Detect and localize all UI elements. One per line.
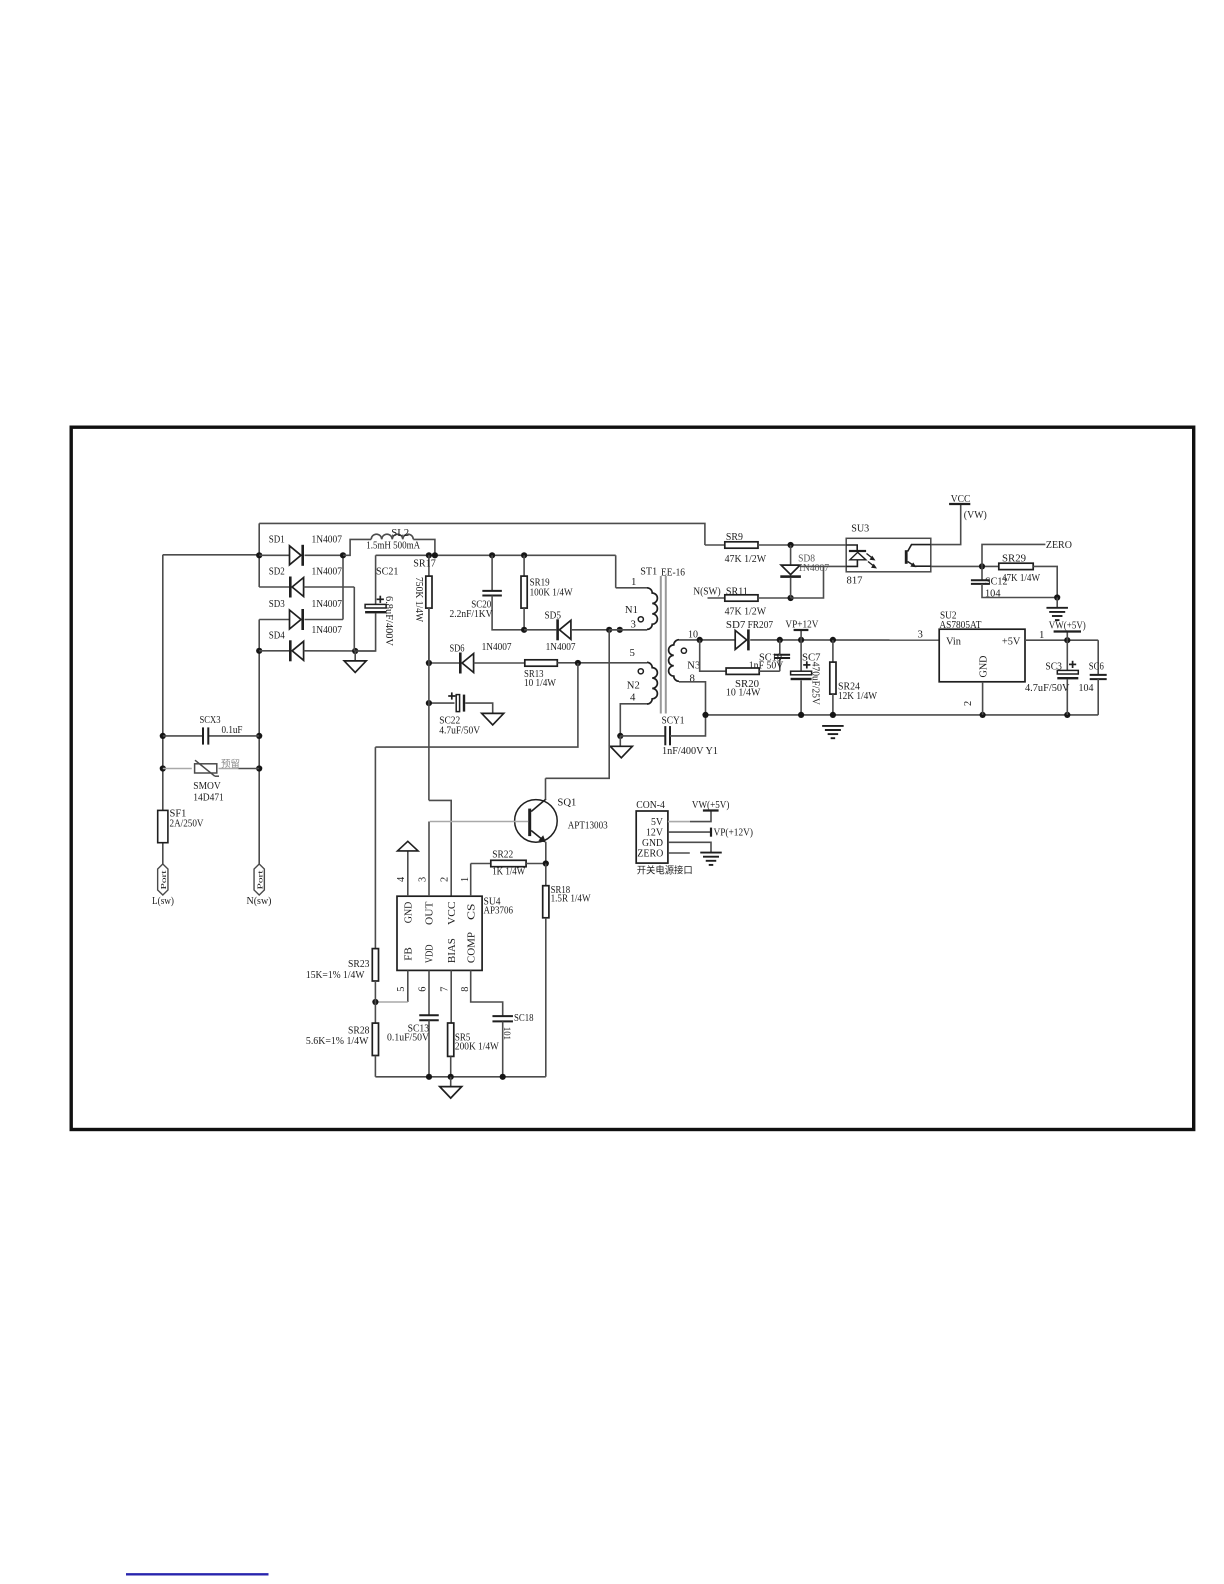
wire secondary ground bus — [702, 712, 1098, 718]
wire N input net (port up through bridge to top bus) — [256, 523, 262, 864]
diode SD3 — [259, 609, 343, 630]
label SD6 — [450, 641, 513, 654]
svg-text:N1: N1 — [625, 604, 638, 616]
svg-text:1N4007: 1N4007 — [798, 563, 829, 574]
svg-text:SR29: SR29 — [1002, 554, 1026, 565]
fuse SF1 — [158, 810, 168, 842]
capacitor SC7 — [791, 640, 812, 715]
wire opto emitter node — [931, 563, 999, 569]
svg-text:4: 4 — [630, 692, 636, 704]
svg-text:0.1uF/50V: 0.1uF/50V — [387, 1033, 429, 1044]
svg-text:750K 1/4W: 750K 1/4W — [413, 577, 424, 622]
label SR20 — [726, 678, 761, 699]
wire CON-4 GND pin — [668, 842, 711, 852]
power flag VW(+5V) at CON-4 — [703, 809, 719, 811]
IC SU4 AP3706 — [397, 896, 482, 970]
resistor SR23 (FB divider upper) — [372, 747, 378, 1002]
svg-text:FB: FB — [403, 947, 414, 961]
capacitor SC21 (bulk) — [355, 555, 386, 651]
label SL2 — [366, 527, 420, 552]
svg-text:3: 3 — [918, 628, 923, 640]
transistor Q1 SQ1 APT13003 — [430, 778, 557, 863]
svg-text:6: 6 — [418, 987, 429, 992]
capacitor SC19 (snubber) — [774, 640, 790, 671]
label SD7 — [726, 619, 774, 631]
label SC13 — [387, 1023, 429, 1043]
label SD4 — [269, 624, 343, 642]
power flag VW(+5V) — [1054, 632, 1081, 641]
svg-text:12K 1/4W: 12K 1/4W — [838, 690, 878, 702]
label SC3 — [1025, 661, 1070, 694]
svg-text:47K 1/2W: 47K 1/2W — [725, 607, 767, 618]
wire SU2 +5V output — [1025, 629, 1098, 643]
wire N3 pin8 to ground — [679, 682, 706, 715]
wire pin5 FB — [372, 970, 408, 1005]
svg-text:+5V: +5V — [1002, 636, 1021, 648]
svg-text:104: 104 — [985, 588, 1001, 599]
svg-text:4.7uF/50V: 4.7uF/50V — [439, 724, 480, 736]
svg-text:AS7805AT: AS7805AT — [939, 619, 981, 631]
svg-text:12V: 12V — [646, 827, 663, 838]
svg-text:L(sw): L(sw) — [152, 895, 174, 907]
wire aux feedback tap — [375, 663, 578, 747]
svg-text:1: 1 — [631, 576, 636, 588]
wire N2 pin4 to ground — [617, 704, 647, 739]
label ZERO — [1046, 539, 1072, 551]
svg-text:OUT: OUT — [425, 901, 436, 925]
svg-text:7: 7 — [439, 987, 450, 992]
svg-text:SD3: SD3 — [269, 598, 285, 610]
power flag VP+12V — [794, 630, 809, 640]
svg-text:1.5mH 500mA: 1.5mH 500mA — [366, 539, 420, 551]
svg-text:2: 2 — [963, 701, 974, 706]
power flag VCC — [949, 503, 970, 505]
wire primary winding pin1 feed — [615, 555, 617, 588]
svg-text:AP3706: AP3706 — [484, 905, 514, 917]
port N(sw) — [254, 864, 264, 895]
svg-text:104: 104 — [1079, 682, 1095, 694]
svg-text:4: 4 — [396, 877, 407, 882]
svg-text:APT13003: APT13003 — [568, 819, 608, 831]
svg-text:VP+12V: VP+12V — [785, 618, 818, 630]
label SQ1 — [557, 796, 607, 831]
svg-text:1.5R 1/4W: 1.5R 1/4W — [551, 892, 592, 904]
svg-text:6.8uF/400V: 6.8uF/400V — [383, 596, 394, 647]
svg-text:SD7: SD7 — [726, 619, 746, 631]
wire DC+ bus — [376, 552, 616, 558]
svg-text:GND: GND — [978, 655, 990, 677]
svg-text:VDD: VDD — [425, 944, 436, 963]
label SR29 — [1002, 554, 1040, 584]
label SD3 — [269, 598, 343, 610]
ground (N2 return) — [610, 736, 632, 758]
label SU2 — [939, 610, 981, 631]
label SU3 — [847, 523, 870, 587]
label SC21 — [376, 566, 399, 647]
label SC19 — [749, 652, 784, 672]
svg-text:200K 1/4W: 200K 1/4W — [455, 1041, 499, 1052]
wire pin1 CS — [470, 864, 472, 897]
capacitor SC20 (snubber) — [482, 555, 524, 630]
svg-text:10 1/4W: 10 1/4W — [524, 677, 557, 689]
svg-text:VW(+5V): VW(+5V) — [692, 799, 730, 811]
svg-text:SC12: SC12 — [985, 577, 1008, 588]
svg-text:ST1: ST1 — [640, 565, 657, 577]
label SD8 — [798, 553, 829, 574]
svg-text:SR11: SR11 — [726, 586, 748, 597]
wire CON-4 ZERO pin — [668, 852, 690, 854]
label SR18 — [551, 884, 592, 905]
label N2 pins — [627, 647, 640, 704]
svg-text:Port: Port — [160, 870, 168, 889]
svg-text:2A/250V: 2A/250V — [170, 818, 204, 829]
svg-text:SR23: SR23 — [348, 959, 370, 970]
svg-text:100K 1/4W: 100K 1/4W — [530, 586, 574, 598]
resistor SR18 (current sense) — [543, 864, 549, 1077]
resistor SR11 — [708, 595, 794, 601]
label SU4 — [484, 895, 514, 916]
svg-text:47K 1/2W: 47K 1/2W — [725, 554, 767, 565]
svg-text:8: 8 — [460, 987, 471, 992]
capacitor SC18 (COMP pin8) — [471, 970, 513, 1076]
label SC20 — [450, 599, 493, 621]
svg-text:SR17: SR17 — [413, 557, 436, 569]
svg-text:SC21: SC21 — [376, 566, 399, 578]
svg-text:Port: Port — [256, 870, 264, 889]
svg-text:10 1/4W: 10 1/4W — [726, 687, 761, 699]
resistor SR5 (BIAS pin7) — [448, 970, 454, 1076]
svg-text:14D471: 14D471 — [193, 793, 224, 804]
wire primary switch node — [546, 630, 610, 779]
label SR22 — [492, 848, 526, 877]
label SCX3 — [200, 715, 243, 736]
ground (CON-4) — [700, 853, 722, 865]
svg-text:1N4007: 1N4007 — [312, 533, 343, 545]
connector CON-4 — [636, 811, 668, 863]
ground (zero net filter) — [1046, 598, 1068, 621]
regulator SU2 AS7805AT — [939, 629, 1025, 682]
label N3 pins — [687, 629, 700, 685]
svg-text:VW(+5V): VW(+5V) — [1049, 620, 1086, 632]
svg-text:5: 5 — [396, 987, 407, 992]
label L(sw) — [152, 895, 174, 907]
svg-text:101: 101 — [502, 1027, 512, 1040]
ground (secondary bus) — [822, 726, 844, 738]
resistor SR9 — [705, 542, 846, 548]
svg-text:ZERO: ZERO — [1046, 539, 1072, 551]
svg-text:(VW): (VW) — [964, 509, 987, 521]
svg-text:1nF 50V: 1nF 50V — [749, 660, 784, 672]
label ST1 — [640, 565, 685, 578]
svg-text:SC6: SC6 — [1089, 661, 1104, 673]
svg-text:SCY1: SCY1 — [662, 715, 685, 727]
label SR13 — [524, 668, 557, 689]
svg-text:N3: N3 — [687, 659, 700, 671]
svg-text:0.1uF: 0.1uF — [222, 725, 243, 736]
capacitor SC12 — [971, 566, 1060, 600]
svg-text:3: 3 — [418, 877, 429, 882]
svg-text:1: 1 — [1039, 629, 1044, 641]
svg-text:SR28: SR28 — [348, 1025, 370, 1036]
label SR17 — [413, 557, 436, 622]
resistor SR19 (snubber) — [521, 555, 527, 633]
resistor SR29 — [999, 563, 1057, 597]
wire bridge DC+ join (SD1-SD3 cathodes) — [340, 552, 346, 619]
svg-text:4.7uF/50V: 4.7uF/50V — [1025, 682, 1070, 694]
svg-text:Vin: Vin — [946, 635, 962, 647]
wire top bus (N to SR9) — [259, 523, 705, 545]
wire CON-4 5V pin — [668, 811, 711, 822]
svg-text:SC3: SC3 — [1045, 661, 1062, 673]
svg-text:SCX3: SCX3 — [200, 715, 221, 726]
label VCC — [951, 493, 987, 521]
svg-text:2: 2 — [439, 877, 450, 882]
svg-text:N2: N2 — [627, 680, 640, 692]
capacitor SC3 — [1057, 640, 1078, 715]
label SD5 — [545, 609, 577, 653]
svg-text:FR207: FR207 — [748, 619, 774, 631]
capacitor SC22 (VCC filter) — [426, 692, 493, 713]
svg-text:COMP: COMP — [466, 932, 477, 963]
diode SD6 — [426, 653, 525, 674]
resistor SR13 — [525, 660, 647, 666]
optocoupler SU3 817 — [846, 538, 931, 572]
svg-text:1N4007: 1N4007 — [482, 641, 513, 653]
transformer aux winding N2 — [647, 662, 657, 704]
capacitor SCY1 (Y-cap) — [620, 715, 705, 745]
svg-text:ZERO: ZERO — [637, 848, 663, 859]
svg-text:GND: GND — [403, 901, 414, 923]
label SF1 — [170, 808, 204, 829]
varistor SMOV — [163, 760, 259, 776]
label VW(+5V) at CON-4 — [692, 799, 730, 811]
svg-text:8: 8 — [690, 673, 695, 685]
diode SD8 — [780, 545, 801, 598]
resistor SR22 (CS sense feed) — [471, 860, 549, 866]
label SR5 — [455, 1033, 499, 1053]
svg-text:SC18: SC18 — [514, 1013, 534, 1024]
diode SD5 (clamp) — [524, 619, 647, 640]
label SU4 bottom pin numbers — [396, 987, 471, 992]
label SD1 — [269, 533, 343, 545]
resistor SR17 (startup) — [426, 555, 432, 663]
label VP(+12V) — [714, 826, 754, 838]
label VP+12V — [785, 618, 818, 630]
phase dot N3 — [681, 648, 686, 653]
wire CON-4 12V pin — [668, 831, 711, 833]
svg-text:SMOV: SMOV — [193, 781, 221, 792]
port L(sw) — [158, 864, 168, 895]
svg-text:3: 3 — [631, 618, 636, 630]
label SC6 — [1079, 661, 1105, 694]
wire L input net (from fuse up to bridge) — [160, 555, 260, 864]
wire SU2 GND pin2 — [963, 682, 983, 715]
label SU4 top pin numbers — [396, 877, 471, 882]
label SU2 pin3 — [918, 628, 923, 640]
phase dot N1 — [638, 617, 643, 622]
label SC18 — [502, 1013, 534, 1040]
diode SD4 — [259, 640, 375, 661]
ground (bridge negative) — [344, 651, 366, 672]
svg-text:1N4007: 1N4007 — [312, 566, 343, 578]
wire VCC rail down to controller — [429, 608, 451, 896]
svg-text:开关电源接口: 开关电源接口 — [637, 865, 693, 877]
svg-text:VCC: VCC — [447, 901, 458, 925]
label CON-4 — [636, 799, 665, 811]
label SR23 — [306, 959, 370, 981]
svg-text:SD4: SD4 — [269, 630, 285, 642]
wire controller ground bus — [375, 1074, 545, 1080]
wire net ZERO stub — [982, 544, 1045, 566]
label SR19 — [530, 577, 574, 599]
label N(SW) — [693, 586, 721, 597]
label SC7 — [802, 652, 821, 706]
label N(sw) — [247, 895, 272, 907]
label SC12 — [985, 577, 1008, 600]
svg-text:470uF/25V: 470uF/25V — [809, 662, 820, 706]
svg-text:47K 1/4W: 47K 1/4W — [1002, 573, 1040, 584]
wire opto LED cathode return — [791, 566, 847, 598]
label SC22 — [439, 715, 480, 737]
label N1 pins — [625, 576, 638, 630]
svg-text:817: 817 — [847, 575, 864, 587]
transformer ST1 core — [661, 576, 666, 714]
capacitor SCX3 (X-cap across L-N) — [163, 727, 259, 744]
svg-text:SR22: SR22 — [492, 848, 513, 860]
wire opto collector to VCC — [931, 504, 961, 545]
svg-text:5.6K=1% 1/4W: 5.6K=1% 1/4W — [306, 1036, 369, 1047]
wire N3 pin10 — [679, 637, 735, 643]
label connector Chinese — [637, 865, 693, 877]
label SMOV — [193, 781, 224, 804]
label SR11 — [725, 586, 767, 617]
svg-text:1N4007: 1N4007 — [546, 641, 577, 653]
resistor SR28 (FB divider lower) — [372, 1002, 378, 1077]
svg-text:CON-4: CON-4 — [636, 799, 665, 811]
svg-text:1N4007: 1N4007 — [312, 598, 343, 610]
wire bridge DC- join (SD2-SD4 anodes) — [353, 587, 355, 651]
svg-text:VCC: VCC — [951, 493, 971, 505]
label VW(+5V) — [1049, 620, 1086, 632]
label SR28 — [306, 1025, 370, 1047]
label SD2 — [269, 566, 343, 578]
transformer primary winding N1 — [609, 588, 657, 630]
svg-text:SU3: SU3 — [851, 523, 869, 535]
svg-text:1K 1/4W: 1K 1/4W — [492, 866, 526, 878]
svg-text:SD5: SD5 — [545, 609, 562, 621]
svg-text:SD1: SD1 — [269, 533, 285, 545]
svg-text:5: 5 — [630, 647, 635, 659]
diode SD7 — [735, 629, 939, 650]
resistor SR24 — [830, 640, 836, 715]
svg-text:N(sw): N(sw) — [247, 895, 272, 907]
svg-text:N(SW): N(SW) — [693, 586, 721, 597]
svg-text:10: 10 — [688, 629, 698, 641]
svg-text:2.2nF/1KV: 2.2nF/1KV — [450, 608, 493, 620]
svg-text:SD6: SD6 — [450, 643, 465, 655]
svg-text:预留: 预留 — [221, 757, 240, 770]
svg-text:1: 1 — [460, 877, 471, 882]
label SR9 — [725, 532, 767, 565]
svg-text:CS: CS — [466, 903, 477, 920]
resistor SR20 (snubber) — [700, 640, 780, 675]
diode SD2 — [259, 577, 354, 598]
inductor SL2 — [343, 534, 435, 555]
capacitor SC13 (VDD pin6) — [419, 970, 439, 1076]
capacitor SC6 — [1090, 640, 1107, 715]
label SCY1 — [662, 715, 719, 758]
power flag VP(+12V) at CON-4 — [710, 828, 712, 837]
svg-text:EE-16: EE-16 — [661, 567, 686, 579]
wire pin3 OUT to base — [428, 822, 430, 897]
svg-text:GND: GND — [642, 838, 663, 849]
svg-text:SD2: SD2 — [269, 566, 285, 578]
svg-text:1N4007: 1N4007 — [312, 624, 343, 636]
svg-text:VP(+12V): VP(+12V) — [714, 826, 754, 838]
diode SD1 — [259, 545, 343, 566]
svg-text:SL2: SL2 — [391, 527, 409, 539]
pin4 GND arrow symbol — [398, 841, 419, 896]
label reserved (Chinese) — [221, 757, 240, 770]
label SR24 — [838, 680, 878, 702]
ground (controller) — [440, 1077, 462, 1098]
svg-text:1nF/400V Y1: 1nF/400V Y1 — [662, 745, 718, 757]
svg-text:15K=1% 1/4W: 15K=1% 1/4W — [306, 970, 365, 981]
svg-text:5V: 5V — [651, 817, 663, 828]
svg-text:BIAS: BIAS — [447, 938, 458, 963]
transformer secondary winding N3 — [669, 640, 679, 682]
ground (SC22) — [482, 713, 504, 725]
svg-text:SR9: SR9 — [726, 532, 743, 543]
phase dot N2 — [638, 669, 643, 674]
svg-text:SQ1: SQ1 — [557, 796, 576, 808]
